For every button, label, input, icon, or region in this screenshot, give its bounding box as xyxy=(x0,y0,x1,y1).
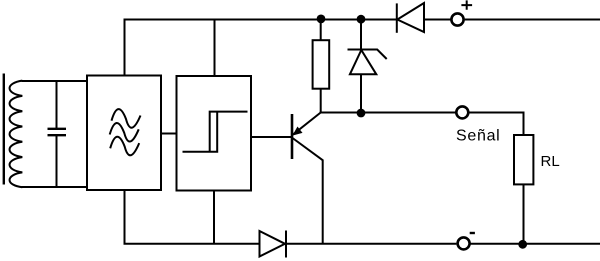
resistor R1 leads xyxy=(320,20,322,113)
wire riser from top rail to oscillator box xyxy=(124,19,126,76)
svg-text:Señal: Señal xyxy=(456,128,500,145)
capacitor C bottom lead xyxy=(56,136,58,187)
transistor Q1 emitter (arrow into bar, PNP) xyxy=(293,113,321,135)
wire bottom rail left section xyxy=(124,243,260,245)
diode D3 cathode bar xyxy=(285,231,287,258)
ferrite core bar xyxy=(3,74,5,185)
wire emitter node to zener node xyxy=(320,112,361,114)
wire Señal terminal to RL xyxy=(468,113,524,136)
oscillator wave symbol 1 xyxy=(112,109,141,128)
+ terminal circle xyxy=(451,13,463,25)
wire bottom rail right section xyxy=(470,243,600,245)
oscillator wave symbol 3 xyxy=(110,137,139,156)
zener diode D2 cathode bar with tick xyxy=(348,50,387,60)
capacitor C plates xyxy=(48,129,67,135)
wire LC tank bottom xyxy=(22,186,88,188)
wire riser schmitt box to bottom rail xyxy=(213,191,215,244)
capacitor C top lead xyxy=(56,81,58,128)
resistor RL body xyxy=(514,135,533,184)
transistor Q1 collector xyxy=(293,138,323,160)
node junction dot at zener top xyxy=(357,15,366,24)
wire riser from top rail to schmitt box xyxy=(214,20,216,77)
wire riser oscillator box to bottom rail xyxy=(124,190,126,244)
oscillator block box xyxy=(87,76,161,191)
transistor Q1 emitter arrowhead xyxy=(292,127,302,136)
node junction dot RL to bottom rail xyxy=(518,240,527,249)
zener diode D2 triangle xyxy=(350,50,376,74)
oscillator wave symbol 2 xyxy=(110,123,139,142)
- label xyxy=(470,232,475,234)
node junction dot at zener bottom / output xyxy=(357,109,366,118)
wire oscillator to schmitt xyxy=(161,133,177,135)
wire collector down to bottom rail xyxy=(322,160,324,244)
zener diode D2 top lead xyxy=(360,20,362,50)
diode D1 (reverse polarity protection) cathode bar xyxy=(396,3,398,32)
schmitt hysteresis symbol xyxy=(183,112,248,152)
wire bottom rail middle section xyxy=(286,243,456,245)
inductor L (sensing coil) xyxy=(10,81,23,188)
wire top rail right section (+ terminal to edge) xyxy=(465,19,600,21)
diode D3 triangle xyxy=(260,231,286,257)
wire top rail left section xyxy=(125,19,397,21)
node junction dot at resistor top xyxy=(317,15,326,24)
svg-text:RL: RL xyxy=(541,153,560,170)
wire output node to Señal terminal xyxy=(361,112,456,114)
schmitt trigger block box xyxy=(177,76,252,191)
diode D1 triangle xyxy=(397,3,424,32)
wire top rail middle section (diode to + terminal) xyxy=(425,19,452,21)
+ label xyxy=(461,0,472,9)
- terminal circle xyxy=(458,237,470,249)
transistor Q1 base bar xyxy=(291,114,294,159)
resistor RL bottom lead xyxy=(523,184,525,243)
wire schmitt to transistor base xyxy=(251,136,292,138)
resistor R1 body xyxy=(313,40,330,88)
Señal terminal circle xyxy=(456,106,468,118)
zener diode D2 bottom lead xyxy=(360,74,362,112)
wire LC tank top xyxy=(22,80,88,82)
